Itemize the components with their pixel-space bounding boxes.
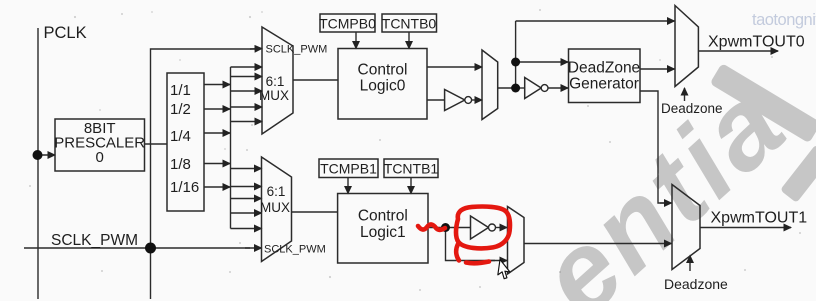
wire Control Logic0 out1 to mux M3 [427, 66, 482, 68]
wire lower mux output to Control Logic1 [292, 211, 338, 213]
wire inverter U4 to mux M4 [496, 227, 508, 229]
wire TCNTB1 arrow down [410, 178, 412, 194]
wire mux M3 output [498, 87, 516, 89]
wire prescaler output [145, 143, 168, 145]
wire inverter U3 to DeadZone in2 [548, 87, 568, 89]
svg-text:PCLK: PCLK [44, 24, 87, 42]
svg-text:Control: Control [358, 208, 408, 225]
wire TCMPB1 arrow down [347, 178, 349, 194]
watermark letter l lower wedge [780, 144, 816, 203]
box 8-bit prescaler 0 [55, 119, 145, 171]
mux M3 channel0 output select [482, 50, 498, 120]
svg-text:SCLK_PWM: SCLK_PWM [51, 232, 138, 249]
svg-text:1/8: 1/8 [170, 156, 191, 173]
wire Control Logic1 output to inverter U4 [428, 227, 471, 229]
wire arrow into mux M4 in2 [490, 260, 507, 262]
wire TCMPB0 arrow down [355, 32, 357, 49]
junction dot node B lower [511, 84, 520, 93]
junction dot node B upper [511, 58, 520, 67]
bubble of inverter U3 [541, 85, 548, 92]
mux M4 channel1 output select [508, 207, 525, 275]
svg-text:XpwmTOUT0: XpwmTOUT0 [708, 34, 805, 51]
box TCMPB1 [319, 159, 378, 178]
wire bypass top to output mux M5 [516, 20, 675, 22]
wire divider 1/2 output [204, 108, 230, 110]
wire bus to lower mux in1 [231, 168, 262, 170]
box Control Logic0 [338, 49, 427, 120]
wire bus to lower mux in4 [231, 212, 262, 214]
svg-text:6:1: 6:1 [267, 184, 286, 199]
box Control Logic1 [338, 194, 428, 264]
wire to inverter U3 [516, 87, 525, 89]
wire XpwmTOUT1 output [700, 227, 791, 229]
svg-text:1/2: 1/2 [170, 101, 191, 118]
svg-text:1/4: 1/4 [170, 128, 191, 145]
wire Control Logic0 out2 to inverter U2 [427, 99, 445, 101]
wire XpwmTOUT0 output [698, 50, 778, 52]
inverter U3 deadzone input [525, 78, 542, 99]
wire node A down and into mux M4 lower input [446, 228, 496, 261]
inverter U4 channel1 [471, 216, 489, 239]
svg-text:6:1: 6:1 [266, 74, 285, 89]
svg-text:MUX: MUX [260, 200, 290, 215]
wire upper mux output to Control Logic0 [293, 79, 338, 81]
inverter U2 channel0 [445, 90, 465, 111]
bubble of inverter U2 [465, 97, 472, 104]
svg-text:TCNTB0: TCNTB0 [382, 16, 437, 32]
svg-text:TCMPB1: TCMPB1 [320, 161, 377, 177]
box TCMPB0 [320, 14, 375, 32]
wire bus to lower mux in5 [231, 228, 262, 230]
wire DeadZone out2 down to mux M6 [640, 91, 664, 203]
watermark letter l bar [710, 63, 816, 143]
mux M5 TOUT0 deadzone select [675, 6, 698, 87]
junction dot node A channel1 [441, 223, 450, 232]
svg-text:XpwmTOUT1: XpwmTOUT1 [711, 210, 808, 227]
svg-text:SCLK_PWM: SCLK_PWM [264, 244, 326, 256]
wire TCNTB0 arrow down [408, 32, 410, 49]
wire SCLK_PWM top arrow into upper mux [250, 48, 262, 51]
junction dot on SCLK_PWM rail [145, 243, 156, 254]
wire arrow into mux M6 in1 [660, 202, 672, 204]
wire bus to upper mux in5 [231, 121, 263, 123]
junction dot on PCLK rail [33, 150, 43, 160]
wire divider 1/8 output [204, 163, 230, 165]
wire Deadzone label arrow bottom [689, 256, 691, 272]
box DeadZone Generator [569, 49, 641, 103]
wire bus to lower mux in2 [231, 186, 262, 188]
box clock divider [167, 73, 204, 211]
svg-text:Logic1: Logic1 [360, 224, 406, 241]
svg-text:0: 0 [96, 149, 104, 166]
wire DeadZone out1 to mux M5 [640, 68, 675, 70]
wire SCLK_PWM bottom horizontal [24, 247, 250, 249]
svg-text:taotongnit: taotongnit [752, 11, 816, 29]
red pen annotation around inverter U4 [418, 207, 510, 264]
wire PCLK vertical rail [37, 28, 39, 299]
wire Deadzone label arrow top [684, 88, 686, 101]
mouse cursor [497, 260, 511, 280]
svg-text:Deadzone: Deadzone [664, 276, 728, 292]
svg-text:Logic0: Logic0 [360, 78, 406, 95]
wire SCLK_PWM arrow into lower mux [245, 247, 262, 249]
wire SCLK_PWM vertical rail [151, 49, 256, 299]
bubble of inverter U4 [489, 224, 496, 231]
wire divider 1/4 output [204, 132, 230, 134]
mux M6 TOUT1 deadzone select [672, 185, 700, 270]
svg-text:Generator: Generator [569, 76, 639, 93]
box TCNTB1 [384, 159, 438, 178]
mux M2 lower 6:1 MUX [262, 157, 292, 262]
svg-text:DeadZone: DeadZone [568, 60, 640, 77]
svg-text:1/1: 1/1 [170, 82, 191, 99]
wire bus to upper mux in2 [231, 76, 263, 78]
svg-text:SCLK_PWM: SCLK_PWM [266, 44, 328, 56]
wire bus to upper mux in1 [231, 66, 263, 68]
wire bus to lower mux in3 [231, 198, 262, 200]
wire bus to upper mux in3 [231, 90, 263, 92]
wire node vertical at x=515.6 [515, 21, 517, 88]
box TCNTB0 [382, 14, 437, 32]
wire divider 1/1 output [204, 84, 230, 86]
svg-text:MUX: MUX [259, 88, 289, 103]
wire bus to upper mux in4 [231, 106, 263, 108]
wire inverter U2 to mux M3 [472, 99, 482, 101]
wire divider 1/16 output [204, 186, 230, 188]
svg-text:TCMPB0: TCMPB0 [319, 16, 376, 32]
wire mux M4 output to mux M6 [524, 243, 672, 245]
wire clock bus vertical [230, 67, 232, 229]
mux M1 upper 6:1 MUX [262, 27, 293, 134]
svg-text:Deadzone: Deadzone [661, 101, 723, 116]
wire to DeadZone in1 [516, 61, 568, 63]
wire PCLK to prescaler [38, 154, 56, 156]
svg-text:1/16: 1/16 [170, 179, 199, 196]
svg-text:Control: Control [358, 62, 408, 79]
